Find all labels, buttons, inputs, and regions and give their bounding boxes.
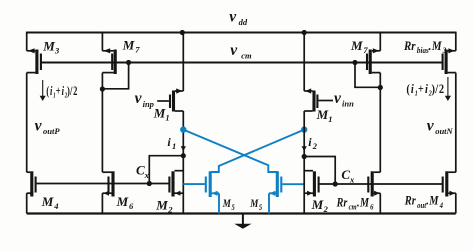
wire left gate line (M4-M6-Cx-M2 gates) xyxy=(36,183,170,185)
svg-text:inp: inp xyxy=(143,99,154,109)
svg-text:v: v xyxy=(35,118,43,135)
wire Vdd to M1R source xyxy=(303,33,305,92)
svg-text:v: v xyxy=(427,118,435,135)
svg-text:M: M xyxy=(155,198,168,213)
svg-text:2: 2 xyxy=(167,204,173,214)
transistor M6 (right NMOS, Rr_cm) xyxy=(367,171,380,196)
svg-text:M: M xyxy=(316,107,329,122)
svg-text:7: 7 xyxy=(135,44,140,54)
node Vcm-bias junction (left) xyxy=(126,60,131,65)
label M5 (left) xyxy=(222,198,235,212)
node Cx (left) xyxy=(147,181,152,186)
wire M4R source to ground rail xyxy=(455,193,457,213)
svg-text:+: + xyxy=(418,82,424,96)
svg-text:5: 5 xyxy=(231,202,234,212)
svg-text:M: M xyxy=(42,39,55,54)
node i1 junction xyxy=(181,153,186,158)
current arrow i2 xyxy=(302,146,307,151)
wire M6R source to ground rail xyxy=(379,193,381,213)
svg-text:M: M xyxy=(153,106,166,121)
label Rr_bias.M3 xyxy=(403,38,446,55)
transistor M1 (right PMOS input) xyxy=(304,88,333,111)
node Cx (right) xyxy=(333,181,338,186)
transistor M2 (left NMOS, diode-connected) xyxy=(168,171,183,197)
svg-text:Rr: Rr xyxy=(403,38,416,53)
svg-text:i: i xyxy=(167,135,171,149)
svg-text:1: 1 xyxy=(328,114,332,124)
transistor M6 (left NMOS) xyxy=(102,171,114,196)
svg-text:M: M xyxy=(428,194,439,208)
node i2 blue junction xyxy=(301,126,307,132)
label Rr_out.M4 xyxy=(404,194,443,210)
wire M3 drain down to M4 drain (voutP node) xyxy=(26,73,28,173)
svg-text:5: 5 xyxy=(259,202,262,212)
wire M7 drain down to M6 drain xyxy=(101,73,103,173)
svg-text:6: 6 xyxy=(370,202,373,212)
svg-text:2: 2 xyxy=(73,84,78,98)
wire M7R drain to Vcm (diode connection) xyxy=(355,63,380,88)
svg-text:1: 1 xyxy=(172,141,176,151)
svg-text:x: x xyxy=(349,174,355,184)
wire M4 source to ground rail xyxy=(26,193,28,213)
wire i2 node to Cx (right) xyxy=(304,157,335,185)
svg-text:2: 2 xyxy=(312,141,318,151)
wire M1R drain / i2 branch down to ground xyxy=(303,111,305,214)
current arrow (i1+i2)/2 left xyxy=(42,80,44,96)
node M7R drain junction xyxy=(378,85,383,90)
wire blue diagonal: i2 node to M5L drain xyxy=(211,130,304,172)
label M5 (right) xyxy=(249,198,262,212)
svg-text:i: i xyxy=(411,82,415,96)
label (i1+i2)/2 right xyxy=(406,82,444,98)
transistor M4 (right NMOS, Rr_out) xyxy=(442,171,456,196)
svg-text:x: x xyxy=(144,170,150,180)
transistor M3 (left PMOS) xyxy=(27,48,42,74)
transistor M4 (left NMOS) xyxy=(27,171,37,196)
svg-text:M: M xyxy=(359,195,369,209)
svg-text:v: v xyxy=(230,42,238,59)
current arrow (i1+i2)/2 right xyxy=(447,77,449,96)
current arrow i1 xyxy=(181,146,186,151)
svg-text:M: M xyxy=(122,37,135,52)
wire Vdd to M3 source xyxy=(26,32,28,51)
svg-text:M: M xyxy=(350,38,363,53)
wire right gate line (M2-Cx-M6-M4 gates) xyxy=(319,183,443,185)
svg-text:Rr: Rr xyxy=(404,194,416,208)
transistor M3 (right PMOS, Rr_bias) xyxy=(442,48,456,74)
transistor M5 (left, blue cross-coupled NMOS) xyxy=(183,171,219,213)
svg-text:M: M xyxy=(431,38,442,53)
wire Vdd to M7 source xyxy=(101,32,103,51)
svg-text:i: i xyxy=(425,82,429,96)
svg-text:v: v xyxy=(334,90,342,107)
svg-text:3: 3 xyxy=(442,45,447,55)
svg-text:cm: cm xyxy=(241,51,252,61)
svg-text:outP: outP xyxy=(43,126,60,136)
svg-text:/: / xyxy=(434,82,438,96)
node Vcm-bias junction (right) xyxy=(352,60,357,65)
node Vdd-M1R junction xyxy=(302,30,307,35)
ground xyxy=(234,214,251,229)
svg-text:.: . xyxy=(426,194,429,208)
wire Vdd to M7R source xyxy=(379,32,381,51)
wire Vdd rail xyxy=(27,32,456,34)
transistor M7 (right PMOS, diode-connected) xyxy=(366,48,380,74)
node i1 blue junction xyxy=(180,126,186,132)
svg-text:6: 6 xyxy=(129,201,134,211)
svg-text:i: i xyxy=(308,135,312,149)
svg-text:2: 2 xyxy=(323,204,329,214)
svg-text:M: M xyxy=(222,198,231,210)
wire Vdd to M1 source xyxy=(182,33,184,92)
node M7L drain junction xyxy=(100,86,105,91)
node i2 junction xyxy=(302,154,307,159)
svg-text:bias: bias xyxy=(417,45,429,55)
svg-text:outN: outN xyxy=(435,126,453,136)
wire M3R drain down to M4R drain (voutN node) xyxy=(455,73,457,173)
node Vdd-M1L junction xyxy=(180,30,185,35)
svg-text:3: 3 xyxy=(54,46,60,56)
transistor M1 (left PMOS input) xyxy=(157,88,183,111)
wire M6 source to ground rail xyxy=(101,193,103,213)
svg-text:M: M xyxy=(41,194,54,209)
transistor M7 (left PMOS, diode-connected) xyxy=(102,48,116,74)
label Rr_cm.M6 xyxy=(336,195,374,212)
wire i1 node to Cx (left) xyxy=(149,156,183,184)
svg-text:Rr: Rr xyxy=(336,195,348,209)
transistor M2 (right NMOS, diode-connected) xyxy=(304,171,319,197)
svg-text:M: M xyxy=(311,197,324,212)
svg-text:cm: cm xyxy=(349,202,357,212)
wire blue diagonal: i1 node to M5R drain xyxy=(183,130,277,172)
svg-text:1: 1 xyxy=(165,113,169,123)
svg-text:2: 2 xyxy=(439,82,444,96)
svg-text:4: 4 xyxy=(439,200,443,210)
svg-text:M: M xyxy=(249,198,258,210)
svg-text:7: 7 xyxy=(363,45,368,55)
svg-text:v: v xyxy=(135,90,143,107)
svg-text:(: ( xyxy=(46,84,49,98)
svg-text:inn: inn xyxy=(342,98,354,108)
wire M1L drain / i1 branch down to ground xyxy=(182,111,184,214)
svg-text:.: . xyxy=(429,38,432,53)
svg-text:.: . xyxy=(357,195,360,209)
wire Vcm rail xyxy=(41,62,443,64)
svg-text:v: v xyxy=(229,9,237,26)
label (i1+i2)/2 left xyxy=(46,84,77,100)
wire ground rail xyxy=(27,212,456,214)
svg-text:dd: dd xyxy=(239,17,248,27)
svg-text:+: + xyxy=(56,84,61,98)
wire M7R drain down to M6R drain xyxy=(379,73,381,173)
svg-text:4: 4 xyxy=(53,201,58,211)
svg-text:M: M xyxy=(116,194,129,209)
transistor M5 (right, blue cross-coupled NMOS) xyxy=(269,171,304,213)
wire Vdd to M3R source xyxy=(455,32,457,51)
wire M7 drain to Vcm (diode connection) xyxy=(102,63,128,89)
svg-text:(: ( xyxy=(406,82,410,96)
